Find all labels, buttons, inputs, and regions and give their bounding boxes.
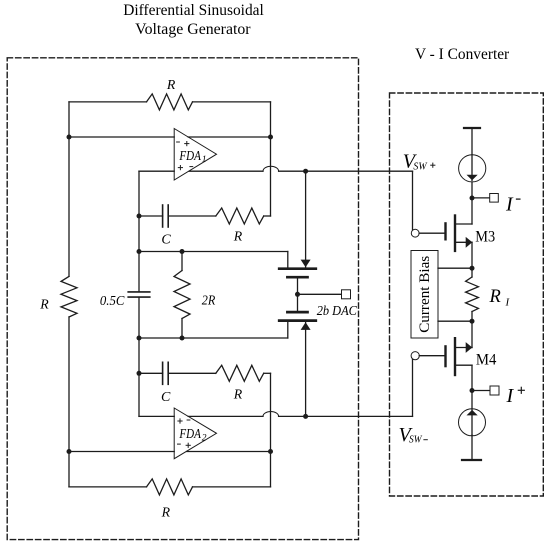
svg-text:2: 2 — [202, 434, 207, 444]
svg-text:M3: M3 — [475, 229, 495, 246]
svg-text:SW: SW — [413, 161, 427, 172]
svg-text:R: R — [233, 228, 243, 243]
svg-text:Differential Sinusoidal: Differential Sinusoidal — [123, 2, 264, 19]
svg-text:FDA: FDA — [179, 427, 202, 442]
svg-text:1: 1 — [202, 155, 207, 165]
svg-text:FDA: FDA — [179, 149, 202, 164]
svg-text:R: R — [161, 504, 171, 519]
svg-text:R: R — [233, 387, 243, 402]
svg-text:R: R — [489, 287, 501, 307]
svg-text:V - I Converter: V - I Converter — [415, 46, 509, 63]
svg-text:I: I — [505, 194, 514, 216]
svg-text:M4: M4 — [476, 352, 497, 369]
svg-text:I: I — [506, 385, 515, 407]
svg-text:C: C — [161, 390, 171, 405]
svg-text:Voltage Generator: Voltage Generator — [135, 21, 251, 38]
svg-text:C: C — [161, 232, 171, 247]
svg-text:R: R — [166, 77, 176, 92]
svg-text:2R: 2R — [202, 294, 216, 309]
svg-text:R: R — [39, 296, 49, 311]
svg-text:0.5C: 0.5C — [100, 294, 125, 309]
svg-text:Current Bias: Current Bias — [417, 255, 433, 332]
svg-text:SW: SW — [409, 434, 423, 445]
svg-text:I: I — [505, 297, 511, 309]
svg-text:2b DAC: 2b DAC — [317, 303, 358, 318]
